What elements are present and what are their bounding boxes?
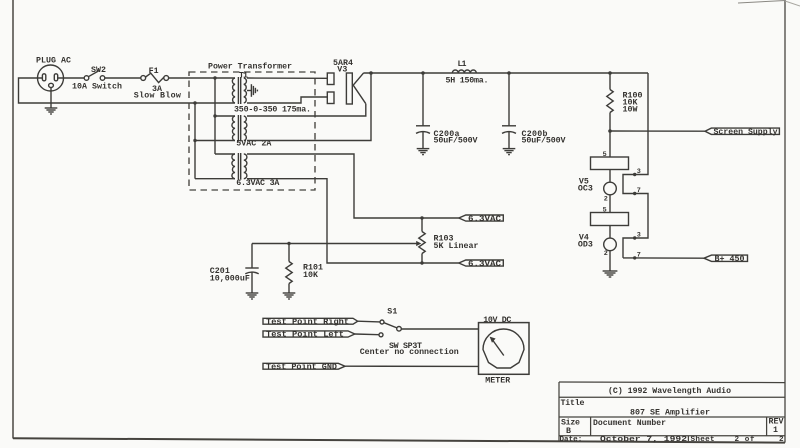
svg-text:Center no connection: Center no connection bbox=[360, 347, 459, 357]
connector J plug AC body bbox=[38, 65, 64, 91]
net tag 6.3VAC lower bbox=[459, 260, 504, 266]
node filament / B+ line bbox=[369, 71, 373, 75]
node V4 pin 3 bbox=[633, 236, 636, 239]
border frame bottom bbox=[13, 438, 785, 442]
border frame right bbox=[784, 0, 786, 443]
svg-text:OC3: OC3 bbox=[578, 184, 593, 193]
inductor L1 bbox=[452, 70, 476, 73]
net tag 6.3VAC upper bbox=[459, 215, 504, 221]
svg-text:2: 2 bbox=[604, 196, 608, 204]
node V5 pin 3 bbox=[633, 173, 636, 176]
tube V5 cathode circle bbox=[604, 182, 617, 195]
node: hot bus junction bbox=[213, 76, 216, 79]
svg-text:Test Point GND: Test Point GND bbox=[266, 363, 337, 372]
node R100 top junction bbox=[608, 71, 612, 75]
ground symbol at V4 cathode bbox=[603, 271, 618, 277]
plug AC ground pin bbox=[49, 83, 54, 87]
wire 6.3VAC secondary bottom lead to tag bbox=[247, 179, 459, 263]
wire Test Point GND to meter bbox=[345, 365, 478, 367]
net tag B+ 450 bbox=[704, 255, 748, 261]
ground symbol at plug bbox=[45, 108, 58, 114]
wire plug right prong to switch bbox=[58, 77, 84, 79]
wire 5VAC secondary bottom riser to B+ line bbox=[247, 73, 371, 141]
svg-text:5H 150ma.: 5H 150ma. bbox=[446, 76, 489, 85]
net tag Test Point Left bbox=[263, 331, 355, 337]
node: neutral bus junction bbox=[193, 101, 196, 104]
potentiometer R103 bbox=[419, 232, 425, 254]
svg-text:2: 2 bbox=[604, 250, 608, 258]
svg-text:1: 1 bbox=[773, 426, 778, 435]
svg-text:10V DC: 10V DC bbox=[483, 316, 511, 325]
wire stub to 5VAC primary bottom bbox=[195, 140, 235, 142]
wire V4 plate to cathode circle bbox=[609, 226, 611, 239]
tube V3 cathode sleeve bbox=[346, 73, 352, 104]
node V4 pin 7 bbox=[633, 256, 636, 259]
wire T1 secondary bottom to V3 plate 2 bbox=[247, 97, 327, 103]
svg-text:10K: 10K bbox=[303, 271, 318, 280]
tube V3 plate 1 bbox=[327, 73, 334, 85]
wire screen supply line bbox=[610, 130, 705, 132]
svg-text:3: 3 bbox=[637, 168, 641, 176]
plug AC right prong bbox=[54, 74, 57, 81]
wire C201 to ground bbox=[251, 272, 253, 292]
wire R100 top lead bbox=[609, 73, 611, 90]
transformer T1 HV winding bbox=[232, 77, 246, 104]
svg-text:OD3: OD3 bbox=[578, 241, 593, 250]
wire pin7 V4 to B+ tag bbox=[623, 257, 704, 259]
svg-text:Power Transformer: Power Transformer bbox=[208, 61, 292, 71]
node V5 pin 7 bbox=[633, 192, 636, 195]
svg-text:10,000uF: 10,000uF bbox=[210, 274, 250, 283]
capacitor C200b bbox=[502, 126, 516, 134]
svg-text:Document Number: Document Number bbox=[593, 418, 666, 428]
wire 6.3VAC secondary top lead to tag bbox=[247, 154, 459, 218]
svg-text:Sheet: Sheet bbox=[691, 436, 715, 444]
svg-text:S1: S1 bbox=[387, 308, 397, 317]
tube V4 plate box bbox=[591, 213, 629, 226]
svg-text:Date:: Date: bbox=[560, 436, 583, 444]
wire R101 top lead bbox=[288, 244, 290, 262]
capacitor C200a bbox=[416, 126, 430, 134]
border frame left bbox=[12, 0, 14, 439]
wire main B+ line bbox=[364, 72, 648, 74]
wire R103 bottom lead bbox=[421, 254, 423, 264]
wire R103 wiper line bbox=[252, 243, 417, 245]
node C200a junction bbox=[421, 71, 425, 75]
wire neutral into transformer (T1 primary bottom lead) bbox=[195, 102, 235, 104]
node primary bottom bus / 5VAC bbox=[193, 139, 196, 142]
resistor R100 bbox=[607, 90, 613, 113]
svg-text:10W: 10W bbox=[623, 106, 638, 115]
ground symbol at C200b bbox=[503, 149, 516, 155]
power transformer dashed enclosure bbox=[189, 72, 315, 190]
wire V4 cathode to ground bbox=[609, 251, 611, 271]
transformer 6.3VAC winding bbox=[232, 153, 247, 180]
svg-text:3: 3 bbox=[637, 231, 641, 239]
node C200b junction bbox=[507, 71, 511, 75]
wire SW2 to F1 bbox=[105, 77, 141, 79]
tube V3 plate 2 bbox=[327, 92, 334, 104]
svg-text:B+ 450: B+ 450 bbox=[715, 255, 745, 264]
svg-text:7: 7 bbox=[637, 251, 641, 259]
node primary top bus / 5VAC bbox=[213, 114, 216, 117]
svg-text:5: 5 bbox=[603, 207, 607, 215]
ground symbol at C200a bbox=[417, 149, 430, 155]
switch S1 bbox=[379, 320, 401, 337]
wire C200b to ground bbox=[508, 132, 510, 149]
svg-text:50uF/500V: 50uF/500V bbox=[434, 136, 478, 146]
wire S1 pole to meter bbox=[401, 328, 478, 330]
wire F1 to T1 primary top bbox=[169, 77, 235, 79]
title block outline bbox=[559, 382, 785, 441]
ground symbol at R101 bbox=[283, 293, 296, 299]
wire right bus with socket jumpers bbox=[623, 73, 648, 258]
wire Test Point Left to S1 bbox=[355, 333, 379, 336]
svg-text:807 SE Amplifier: 807 SE Amplifier bbox=[630, 408, 710, 418]
net tag Test Point Right bbox=[263, 318, 358, 324]
capacitor C201 bbox=[245, 268, 258, 274]
svg-text:6.3VAC 3A: 6.3VAC 3A bbox=[236, 179, 279, 188]
tube V5 plate box bbox=[591, 157, 629, 170]
svg-text:2: 2 bbox=[779, 436, 784, 444]
tube V3 filament bbox=[353, 73, 366, 104]
svg-text:PLUG AC: PLUG AC bbox=[36, 56, 71, 65]
wire filament bottom to 5VAC secondary top bbox=[247, 104, 366, 116]
svg-text:5K Linear: 5K Linear bbox=[434, 241, 479, 251]
svg-text:50uF/500V: 50uF/500V bbox=[522, 136, 566, 146]
svg-text:Test Point Right: Test Point Right bbox=[266, 318, 349, 327]
node R103 top bbox=[420, 216, 423, 219]
wire V5 plate to cathode circle bbox=[609, 170, 611, 183]
meter M1 needle arrowhead bbox=[490, 337, 496, 343]
wire into V5 plate bbox=[609, 131, 611, 157]
transformer 5VAC winding bbox=[232, 115, 247, 142]
wire primary top bus bbox=[214, 78, 216, 154]
wire plug left prong to neutral run bbox=[19, 78, 196, 103]
svg-text:October 7, 1992: October 7, 1992 bbox=[600, 436, 688, 444]
wire plug ground stub bbox=[50, 88, 52, 108]
ground symbol at T1 center tap (rotated) bbox=[251, 84, 257, 97]
plug AC left prong bbox=[42, 74, 45, 81]
wire stub to 5VAC primary top bbox=[215, 115, 235, 117]
wire down to C200b bbox=[508, 73, 510, 126]
svg-text:10A Switch: 10A Switch bbox=[72, 82, 122, 92]
wire stub to 6.3VAC primary bottom bbox=[195, 178, 235, 180]
svg-text:Title: Title bbox=[561, 398, 585, 408]
wire stub to 6.3VAC primary top bbox=[215, 153, 235, 155]
wire T1 secondary top to V3 plate 1 bbox=[247, 77, 327, 79]
node R103 bottom bbox=[420, 261, 423, 264]
svg-text:L1: L1 bbox=[458, 60, 467, 69]
svg-text:350-0-350 175ma.: 350-0-350 175ma. bbox=[234, 105, 311, 114]
wire R100 bottom lead bbox=[609, 113, 611, 132]
wire primary bottom bus bbox=[194, 103, 196, 179]
svg-text:Test Point Left: Test Point Left bbox=[266, 331, 344, 340]
switch SW2 bbox=[84, 70, 105, 80]
svg-text:6.3VAC: 6.3VAC bbox=[468, 260, 501, 269]
ground symbol at C201 bbox=[246, 293, 259, 299]
svg-text:Screen Supply: Screen Supply bbox=[714, 128, 778, 137]
wire R103 top lead bbox=[421, 218, 423, 232]
node screen supply junction bbox=[608, 129, 612, 133]
resistor R101 bbox=[286, 262, 292, 284]
wire C200a to ground bbox=[422, 132, 424, 149]
wire T1 center tap stub bbox=[247, 90, 251, 92]
wire Test Point Right to S1 bbox=[358, 320, 380, 323]
wire C201 top lead bbox=[251, 244, 253, 269]
svg-text:7: 7 bbox=[637, 187, 641, 195]
svg-text:B: B bbox=[566, 427, 571, 436]
svg-text:5: 5 bbox=[603, 151, 607, 159]
svg-text:Size: Size bbox=[561, 418, 580, 428]
svg-text:6.3VAC: 6.3VAC bbox=[468, 215, 501, 224]
border frame top-right edge artifact bbox=[738, 1, 785, 4]
wire V5 cathode to V4 plate bbox=[609, 195, 611, 213]
tube V4 cathode circle bbox=[604, 238, 617, 251]
R103 wiper arrow bbox=[416, 241, 421, 246]
wire R101 to ground bbox=[288, 284, 290, 293]
svg-text:Slow Blow: Slow Blow bbox=[134, 91, 181, 101]
net tag Test Point GND bbox=[263, 363, 345, 369]
svg-text:METER: METER bbox=[485, 377, 510, 386]
svg-text:2 of: 2 of bbox=[735, 436, 755, 444]
node R101 top bbox=[287, 242, 290, 245]
meter M1 needle bbox=[492, 340, 504, 356]
meter M1 box bbox=[479, 323, 530, 375]
wire down to C200a bbox=[422, 73, 424, 126]
svg-text:(C) 1992 Wavelength Audio: (C) 1992 Wavelength Audio bbox=[608, 386, 731, 396]
meter M1 face bbox=[483, 329, 524, 368]
fuse F1 bbox=[141, 73, 169, 82]
net tag Screen Supply bbox=[705, 128, 779, 134]
